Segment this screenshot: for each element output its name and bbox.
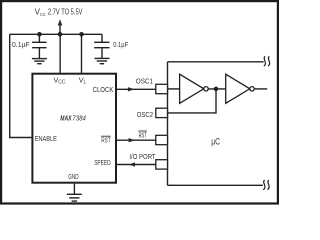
ground (C2) [95, 58, 110, 63]
svg-text:RST: RST [139, 131, 147, 140]
svg-text:ENABLE: ENABLE [35, 135, 57, 143]
net label RST (overbar) [138, 131, 147, 140]
uC block U2 outline [168, 62, 264, 186]
pin label VL [79, 75, 87, 85]
svg-text:2.7V TO 5.5V: 2.7V TO 5.5V [48, 7, 83, 16]
net VCC label [35, 7, 83, 17]
svg-text:I/O PORT: I/O PORT [129, 152, 156, 161]
svg-text:MAX: MAX [60, 113, 72, 122]
inverter 1 [180, 74, 209, 103]
svg-text:OSC1: OSC1 [136, 77, 153, 86]
svg-text:0.1µF: 0.1µF [12, 42, 30, 49]
wire between inverters [208, 88, 226, 90]
wire I/O PORT to SPEED with arrow [117, 162, 156, 166]
inverter 2 [226, 74, 255, 103]
svg-text:7384: 7384 [72, 113, 86, 122]
wire feedback to OSC2 [168, 89, 217, 113]
svg-text:OSC2: OSC2 [137, 110, 153, 119]
wire VL pin drop [81, 34, 83, 73]
wire RST with arrow [117, 138, 156, 142]
wire VCC rail [10, 33, 102, 35]
ground (C1) [32, 59, 47, 64]
svg-text:0.1µF: 0.1µF [113, 42, 128, 49]
pin label VCC [54, 75, 66, 85]
junction dot between inverters [214, 87, 219, 92]
wire left drop to ENABLE [10, 34, 32, 137]
part name MAX7384 [60, 113, 86, 122]
svg-text:CLOCK: CLOCK [93, 86, 114, 94]
svg-text:µC: µC [211, 136, 220, 146]
ground (U1 GND) [67, 194, 82, 201]
break squiggle (uC bottom edge) [263, 180, 269, 190]
svg-text:GND: GND [68, 173, 78, 181]
capacitor C1 0.1uF [32, 34, 47, 58]
pin label RST (overbar) [101, 136, 111, 144]
IC U1 MAX7384 body [32, 74, 116, 183]
svg-text:CC: CC [58, 80, 66, 86]
pin box OSC2 [156, 108, 168, 117]
pin box RST [156, 135, 168, 144]
wire GND pin drop [73, 184, 75, 195]
junction dot VCC [58, 32, 63, 37]
svg-text:CC: CC [40, 12, 46, 18]
wire CLOCK to OSC1 with arrow [117, 87, 156, 91]
pin box OSC1 [156, 84, 168, 93]
svg-text:RST: RST [101, 137, 111, 145]
wire inverter input [168, 88, 180, 90]
capacitor C2 0.1uF [94, 34, 109, 58]
svg-text:L: L [84, 80, 87, 86]
wire inverter 2 output [254, 88, 267, 90]
wire VCC pin drop [59, 34, 61, 73]
VCC supply arrow [58, 19, 63, 34]
break squiggle (uC top edge) [264, 56, 270, 66]
pin box I/O PORT [156, 160, 168, 169]
junction dot C1 tap [37, 32, 42, 37]
svg-text:SPEED: SPEED [94, 159, 110, 167]
junction dot VL [79, 32, 84, 37]
